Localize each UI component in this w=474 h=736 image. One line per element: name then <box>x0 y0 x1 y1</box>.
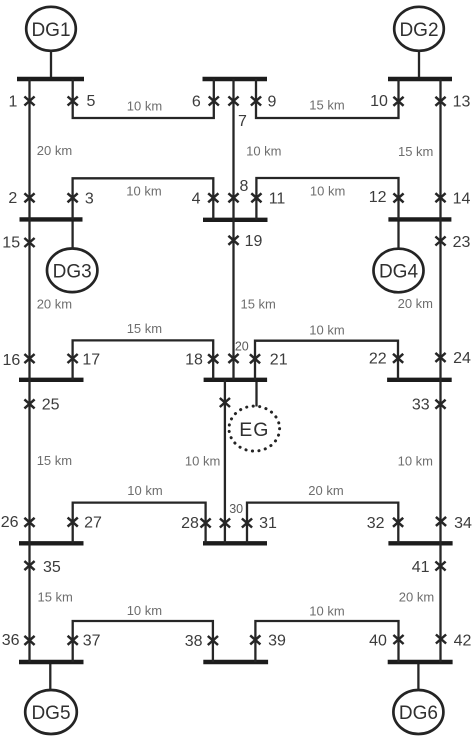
svg-text:10 km: 10 km <box>310 183 345 198</box>
svg-text:10 km: 10 km <box>185 453 220 468</box>
switch 32 <box>393 518 403 527</box>
switch 21 <box>250 354 260 363</box>
switch 4 <box>208 193 218 202</box>
svg-text:42: 42 <box>454 632 472 649</box>
generator DG5 <box>25 690 77 734</box>
switch 17 <box>68 354 78 363</box>
svg-text:36: 36 <box>2 632 20 649</box>
wire feeder column G (switches 13-14-23-24-33-34-41-42) <box>439 79 441 662</box>
svg-text:DG3: DG3 <box>53 261 92 282</box>
switch 2 <box>24 193 34 202</box>
svg-text:20 km: 20 km <box>37 296 72 311</box>
switch 30 <box>220 519 230 528</box>
wire feeder column A (switches 1-2-15-16-25-26-35-36) <box>28 79 30 662</box>
switch 7 <box>228 97 238 106</box>
svg-text:DG4: DG4 <box>379 262 419 283</box>
wire 5-6 link (10 km) <box>73 79 214 118</box>
bus row3 left <box>19 378 84 382</box>
svg-text:20 km: 20 km <box>399 590 434 605</box>
svg-text:DG5: DG5 <box>31 703 70 724</box>
switch 9 <box>251 97 261 106</box>
bus row2 right <box>388 217 451 221</box>
svg-text:23: 23 <box>453 234 471 251</box>
svg-text:15 km: 15 km <box>240 297 275 312</box>
bus row3 middle <box>204 378 268 382</box>
svg-text:40: 40 <box>369 632 387 649</box>
generator DG1 <box>26 7 76 51</box>
generator DG3 <box>47 248 97 292</box>
svg-text:32: 32 <box>367 515 385 532</box>
switch 23 <box>435 237 445 246</box>
svg-text:24: 24 <box>453 350 471 367</box>
bus row3 right <box>387 378 452 382</box>
switch 31 <box>242 519 252 528</box>
svg-text:33: 33 <box>412 397 430 414</box>
switch 11 <box>251 193 261 202</box>
svg-text:15: 15 <box>2 235 20 252</box>
svg-text:20 km: 20 km <box>37 143 72 158</box>
svg-text:10 km: 10 km <box>127 483 162 498</box>
generator DG4 <box>374 249 424 293</box>
svg-text:15 km: 15 km <box>37 590 72 605</box>
bus row5 middle <box>203 660 268 664</box>
switch 14 <box>435 193 445 202</box>
wire 39-40 link (10 km) <box>255 621 398 662</box>
switch 35 <box>24 561 34 570</box>
wire EG stem <box>255 380 257 407</box>
svg-text:34: 34 <box>454 515 472 532</box>
svg-text:15 km: 15 km <box>309 98 344 113</box>
bus row1 left <box>17 77 84 81</box>
svg-text:14: 14 <box>453 191 471 208</box>
svg-text:20: 20 <box>235 340 249 354</box>
svg-text:12: 12 <box>369 189 387 206</box>
switch 28 <box>201 519 211 528</box>
switch 26 <box>24 518 34 527</box>
svg-text:20 km: 20 km <box>398 296 433 311</box>
svg-text:5: 5 <box>87 93 96 110</box>
switch 24 <box>435 353 445 362</box>
svg-text:30: 30 <box>229 502 243 516</box>
svg-text:2: 2 <box>8 190 17 207</box>
wire DG4 stem <box>397 220 399 249</box>
svg-text:27: 27 <box>84 515 102 532</box>
svg-text:10 km: 10 km <box>127 99 162 114</box>
bus row4 left <box>19 541 84 545</box>
svg-text:31: 31 <box>259 515 277 532</box>
switch 34 <box>436 517 446 526</box>
svg-text:41: 41 <box>412 559 430 576</box>
svg-text:37: 37 <box>83 633 101 650</box>
svg-text:7: 7 <box>238 113 247 130</box>
wire 29-30 column (10 km) <box>224 380 226 544</box>
bus row1 right <box>388 77 452 81</box>
switch 33 <box>435 400 445 409</box>
wire 37-38 link (10 km) <box>73 621 213 662</box>
svg-text:26: 26 <box>1 514 19 531</box>
svg-text:20 km: 20 km <box>308 483 343 498</box>
switch 39 <box>250 635 260 644</box>
svg-text:DG2: DG2 <box>399 20 438 41</box>
svg-text:3: 3 <box>85 190 94 207</box>
switch 19 <box>228 236 238 245</box>
svg-text:15 km: 15 km <box>127 321 162 336</box>
wire DG6 stem <box>417 662 419 690</box>
wire 27-28 link (10 km) <box>73 503 206 544</box>
svg-text:EG: EG <box>239 419 269 441</box>
bus row5 right <box>388 660 453 664</box>
switch 20 <box>228 354 238 363</box>
switch 27 <box>68 518 78 527</box>
bus row1 middle <box>203 77 268 81</box>
wire 21-22 link (10 km) <box>255 341 398 380</box>
wire 17-18 link (15 km) <box>73 340 214 379</box>
switch 10 <box>393 97 403 106</box>
switch 37 <box>68 636 78 645</box>
wire 31-32 link (20 km) <box>247 503 398 544</box>
svg-text:10 km: 10 km <box>127 603 162 618</box>
bus row4 right <box>388 541 452 545</box>
switch 22 <box>393 354 403 363</box>
svg-text:16: 16 <box>3 352 21 369</box>
svg-text:6: 6 <box>192 94 201 111</box>
svg-text:DG6: DG6 <box>399 703 438 724</box>
wire 19-20 column (15 km) <box>232 220 234 380</box>
bus row4 middle <box>203 541 267 545</box>
svg-text:28: 28 <box>181 515 199 532</box>
generator DG6 <box>393 690 443 734</box>
svg-text:15 km: 15 km <box>37 453 72 468</box>
svg-text:39: 39 <box>268 632 286 649</box>
svg-text:35: 35 <box>43 559 61 576</box>
svg-text:21: 21 <box>270 351 288 368</box>
switch 5 <box>68 97 78 106</box>
switch 12 <box>393 193 403 202</box>
svg-text:18: 18 <box>185 351 203 368</box>
switch 16 <box>24 354 34 363</box>
switch 25 <box>24 399 34 408</box>
switch 41 <box>435 562 445 571</box>
switch 42 <box>436 635 446 644</box>
svg-text:13: 13 <box>453 94 471 111</box>
wire DG3 stem <box>71 220 73 249</box>
switch 15 <box>24 238 34 247</box>
svg-text:1: 1 <box>9 94 18 111</box>
wire 11-12 link (10 km) <box>256 178 398 220</box>
svg-text:19: 19 <box>245 233 263 250</box>
wire 3-4 link (10 km) <box>73 178 214 220</box>
switch 3 <box>68 193 78 202</box>
svg-text:11: 11 <box>269 191 286 208</box>
svg-text:25: 25 <box>42 396 60 413</box>
svg-text:9: 9 <box>268 93 277 110</box>
svg-text:10 km: 10 km <box>126 183 161 198</box>
svg-text:10: 10 <box>370 93 388 110</box>
switch 8 <box>228 193 238 202</box>
wire DG2 stem <box>418 51 420 79</box>
switch 36 <box>24 636 34 645</box>
switch 18 <box>208 354 218 363</box>
svg-text:4: 4 <box>192 190 201 207</box>
svg-text:8: 8 <box>240 178 249 195</box>
bus row5 left <box>19 660 84 664</box>
switch 40 <box>393 635 403 644</box>
svg-text:10 km: 10 km <box>398 454 433 469</box>
switch (unnumbered, line 30) <box>220 398 230 407</box>
switch 38 <box>208 636 218 645</box>
generator DG2 <box>394 7 444 51</box>
switch 13 <box>435 97 445 106</box>
wire 7-8 column (10 km) <box>232 79 234 220</box>
wire DG1 stem <box>50 51 52 79</box>
svg-text:15 km: 15 km <box>398 144 433 159</box>
svg-text:17: 17 <box>82 351 100 368</box>
bus row2 left <box>20 217 83 221</box>
wire DG5 stem <box>49 662 51 690</box>
wire 9-10 link (15 km) <box>256 79 399 118</box>
external grid EG <box>229 406 280 451</box>
switch 1 <box>24 97 34 106</box>
svg-text:22: 22 <box>369 351 387 368</box>
svg-text:38: 38 <box>185 633 203 650</box>
svg-text:10 km: 10 km <box>309 322 344 337</box>
bus row2 middle <box>203 218 268 222</box>
svg-text:DG1: DG1 <box>31 20 70 41</box>
svg-text:10 km: 10 km <box>309 603 344 618</box>
switch 6 <box>209 97 219 106</box>
svg-text:10 km: 10 km <box>246 144 281 159</box>
